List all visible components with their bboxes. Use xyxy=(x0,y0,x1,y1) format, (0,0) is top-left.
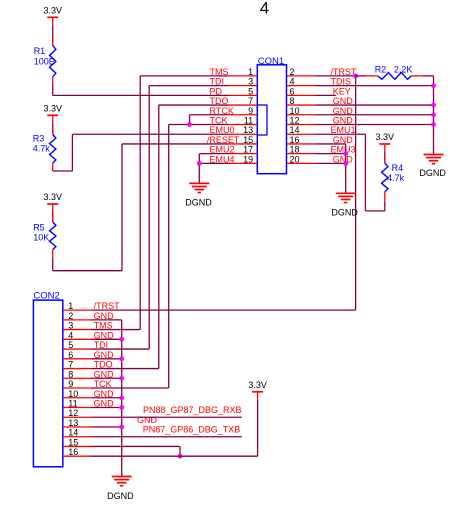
CON2 pin 7 xyxy=(63,360,113,370)
svg-text:R4: R4 xyxy=(392,163,404,173)
svg-text:DGND: DGND xyxy=(107,491,134,501)
svg-text:13: 13 xyxy=(68,418,78,428)
svg-text:14: 14 xyxy=(290,125,300,135)
wire PN87_GP86_DBG_TXB (pin14) xyxy=(92,425,242,437)
wire GND16 down to ground xyxy=(315,144,346,193)
wire GND12 xyxy=(315,124,433,126)
svg-text:5: 5 xyxy=(248,86,253,96)
svg-text:16: 16 xyxy=(290,135,300,145)
svg-text:EMU0: EMU0 xyxy=(210,125,235,135)
CON2 pin 14 xyxy=(63,428,92,438)
wire KEY stub xyxy=(315,94,336,96)
CON1 pin 9 (RTCK) xyxy=(210,106,258,116)
svg-text:4.7k: 4.7k xyxy=(33,143,51,153)
svg-text:CON2: CON2 xyxy=(33,291,59,302)
CON2 pin 5 xyxy=(63,340,108,350)
CON1 pin 8 (GND) xyxy=(287,96,354,106)
svg-text:7: 7 xyxy=(68,360,73,370)
svg-text:R5: R5 xyxy=(33,222,45,232)
wire GND10 xyxy=(315,114,433,116)
wire GND8 xyxy=(315,104,433,106)
svg-text:9: 9 xyxy=(68,379,73,389)
CON1 pin 16 (GND) xyxy=(287,135,354,145)
wire GND bus of CON2 xyxy=(92,320,122,477)
power 3.3V (R5) xyxy=(43,192,62,212)
junction GND20 xyxy=(343,161,348,166)
junction GND pin11 xyxy=(119,405,124,410)
svg-text:R3: R3 xyxy=(33,133,45,143)
svg-text:TDI: TDI xyxy=(94,340,109,350)
svg-text:12: 12 xyxy=(290,116,300,126)
junction GND pin8 xyxy=(119,376,124,381)
svg-text:6: 6 xyxy=(290,86,295,96)
CON1 pin 14 (EMU1) xyxy=(287,125,356,135)
svg-text:7: 7 xyxy=(248,96,253,106)
junction GND10 xyxy=(431,112,436,117)
CON2 pin 3 xyxy=(63,321,113,331)
wire TDO: CON1 pin7 to CON2 pin7 xyxy=(92,105,229,368)
CON1 pin 6 (KEY) xyxy=(287,86,351,96)
CON1 pin 5 (PD) xyxy=(210,86,258,96)
CON2 pin 15 xyxy=(63,437,92,447)
ground DGND (right) xyxy=(419,155,446,179)
svg-text:6: 6 xyxy=(68,350,73,360)
svg-text:1: 1 xyxy=(248,67,253,77)
svg-text:3.3V: 3.3V xyxy=(248,380,267,390)
svg-text:15: 15 xyxy=(243,135,253,145)
wire TMS: CON1 pin1 to CON2 pin3 xyxy=(92,76,229,330)
svg-text:3.3V: 3.3V xyxy=(43,5,62,15)
ground DGND (below EMU4) xyxy=(185,183,212,207)
CON2 pin 6 xyxy=(63,350,114,360)
wire pin16 to 3.3V xyxy=(92,399,258,456)
CON1 pin 7 (TDO) xyxy=(210,96,258,106)
svg-text:/RESET: /RESET xyxy=(207,135,240,145)
CON1 pin 18 (EMU3) xyxy=(287,145,356,155)
svg-text:12: 12 xyxy=(68,408,78,418)
CON2 pin 2 xyxy=(63,311,114,321)
svg-text:3.3V: 3.3V xyxy=(376,132,395,142)
wire EMU1: CON1 pin14 to R4 xyxy=(315,134,385,211)
wire GND pin4 xyxy=(92,338,122,340)
svg-text:2.2K: 2.2K xyxy=(394,64,413,74)
svg-text:14: 14 xyxy=(68,428,78,438)
svg-text:DGND: DGND xyxy=(331,208,358,218)
power 3.3V (CON2 pin16) xyxy=(248,380,267,400)
svg-text:4.7k: 4.7k xyxy=(387,173,405,183)
svg-text:/TRST: /TRST xyxy=(94,301,121,311)
CON2 pin 10 xyxy=(63,389,114,399)
svg-text:11: 11 xyxy=(244,116,253,126)
CON2 pin 1 xyxy=(63,301,120,311)
svg-text:3: 3 xyxy=(68,321,73,331)
svg-text:1: 1 xyxy=(68,301,73,311)
wire GND pin8 xyxy=(92,377,122,379)
junction GND pin4 xyxy=(119,337,124,342)
wire pin15 to 3.3V net xyxy=(92,446,181,456)
CON1 pin 17 (EMU2) xyxy=(210,145,258,155)
svg-text:10K: 10K xyxy=(33,232,49,242)
svg-text:PN87_GP86_DBG_TXB: PN87_GP86_DBG_TXB xyxy=(143,425,241,435)
svg-text:15: 15 xyxy=(68,437,78,447)
wire GND20 to bus xyxy=(315,162,346,164)
wire EMU0 net: R3 to CON1 pin13 xyxy=(53,134,229,171)
junction EMU3 xyxy=(343,151,348,156)
CON2 pin 13 xyxy=(63,415,158,428)
CON1 pin 20 (GND) xyxy=(287,154,354,164)
svg-text:100E: 100E xyxy=(34,57,55,67)
junction RTCK/TCK xyxy=(187,122,192,127)
junction EMU4/EMU2 xyxy=(197,161,202,166)
svg-text:DGND: DGND xyxy=(419,168,446,178)
svg-text:9: 9 xyxy=(248,106,253,116)
CON2 pin 9 xyxy=(63,379,112,389)
resistor R2 xyxy=(356,64,434,79)
svg-text:8: 8 xyxy=(290,96,295,106)
junction GND8 xyxy=(431,103,436,108)
svg-text:3.3V: 3.3V xyxy=(43,192,62,202)
svg-text:TMS: TMS xyxy=(94,321,113,331)
svg-text:10: 10 xyxy=(290,106,300,116)
junction GND pin6 xyxy=(119,356,124,361)
svg-text:16: 16 xyxy=(68,447,78,457)
svg-text:4: 4 xyxy=(260,0,269,17)
power 3.3V (R3) xyxy=(43,103,62,123)
wire PN88_GP87_DBG_RXB (pin12) xyxy=(92,405,242,417)
wire /TRST: CON1 pin2 to R2 and down to CON2 pin1 xyxy=(92,76,356,310)
svg-text:17: 17 xyxy=(243,145,253,155)
wire GND pin10 xyxy=(92,397,122,399)
CON1 pin 11 (TCK) xyxy=(210,116,258,126)
svg-text:3.3V: 3.3V xyxy=(43,103,62,113)
wire EMU3 to bus xyxy=(315,153,346,155)
svg-text:4: 4 xyxy=(290,77,295,87)
svg-text:11: 11 xyxy=(68,399,77,409)
svg-text:19: 19 xyxy=(243,154,253,164)
power 3.3V (R1) xyxy=(43,5,62,25)
wire TDIS: CON1 pin4 to bus xyxy=(315,85,433,87)
svg-text:R1: R1 xyxy=(34,46,46,56)
wire GND pin11 xyxy=(92,407,122,409)
svg-text:DGND: DGND xyxy=(185,198,212,208)
CON1 pin 13 (EMU0) xyxy=(210,125,258,135)
wire GND pin13 xyxy=(92,426,122,428)
junction /TRST xyxy=(353,74,358,79)
svg-text:GND: GND xyxy=(137,415,158,425)
svg-text:2: 2 xyxy=(290,67,295,77)
wire TCK: CON1 pin11 to CON2 pin9 xyxy=(92,125,229,389)
resistor R4 xyxy=(382,152,405,211)
junction GND pin13 xyxy=(119,425,124,430)
CON1 pin 19 (EMU4) xyxy=(210,154,258,164)
CON1 pin 3 (TDI) xyxy=(210,77,258,87)
svg-text:8: 8 xyxy=(68,369,73,379)
CON2 pin 4 xyxy=(63,330,114,340)
svg-text:TDO: TDO xyxy=(94,360,113,370)
svg-text:PN88_GP87_DBG_RXB: PN88_GP87_DBG_RXB xyxy=(143,405,242,415)
wire /RESET net: R5 to CON1 pin15 xyxy=(53,144,229,271)
CON2 pin 8 xyxy=(63,369,114,379)
resistor R1 xyxy=(34,25,56,85)
connector CON1 xyxy=(257,56,286,174)
ground DGND (below CON2) xyxy=(107,477,134,502)
junction TDIS xyxy=(431,83,436,88)
wire EMU2: CON1 pin17 down to EMU4/ground xyxy=(199,154,228,164)
wire TDI: CON1 pin3 to CON2 pin5 xyxy=(92,86,229,349)
svg-text:10: 10 xyxy=(68,389,78,399)
svg-text:4: 4 xyxy=(68,330,73,340)
svg-text:20: 20 xyxy=(290,154,300,164)
svg-text:2: 2 xyxy=(68,311,73,321)
svg-text:CON1: CON1 xyxy=(258,56,284,67)
svg-text:TCK: TCK xyxy=(94,379,112,389)
connector CON2 xyxy=(33,291,62,467)
power 3.3V (R4) xyxy=(376,132,395,152)
junction pin15/pin16 xyxy=(178,454,183,459)
wire PD net: R1 to CON1 pin5 xyxy=(53,85,229,96)
resistor R5 xyxy=(33,212,56,258)
wire GND pin6 xyxy=(92,358,122,360)
wire EMU4: CON1 pin19 to ground xyxy=(199,163,228,183)
CON1 pin 10 (GND) xyxy=(287,106,354,116)
CON1 pin 2 (/TRST) xyxy=(287,67,358,77)
svg-text:3: 3 xyxy=(248,77,253,87)
svg-text:5: 5 xyxy=(68,340,73,350)
CON1 pin 4 (TDIS) xyxy=(287,77,352,87)
wire RTCK: CON1 pin9 joins TCK xyxy=(190,115,229,125)
wire GND bus right of CON1 xyxy=(433,76,435,155)
ground DGND (below CON1) xyxy=(331,193,358,217)
CON1 pin 15 (/RESET) xyxy=(207,135,257,145)
svg-text:13: 13 xyxy=(243,125,253,135)
CON2 pin 11 xyxy=(63,399,114,409)
junction GND12 xyxy=(431,122,436,127)
resistor R3 xyxy=(33,123,56,171)
CON2 pin 16 xyxy=(63,447,92,457)
svg-text:PD: PD xyxy=(210,86,223,96)
CON2 pin 12 xyxy=(63,408,92,418)
CON1 pin 1 (TMS) xyxy=(210,67,258,77)
junction GND pin10 xyxy=(119,395,124,400)
svg-text:R2: R2 xyxy=(375,64,387,74)
svg-text:18: 18 xyxy=(290,145,300,155)
CON1 pin 12 (GND) xyxy=(287,116,354,126)
